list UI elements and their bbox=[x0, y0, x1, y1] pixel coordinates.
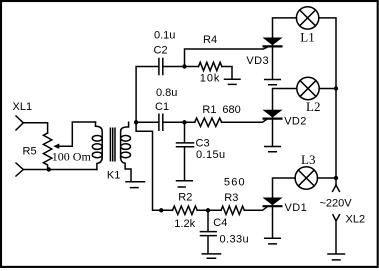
svg-text:C1: C1 bbox=[155, 101, 169, 113]
wire junction down to R2 row bbox=[136, 122, 172, 210]
node R5 bottom junction bbox=[47, 167, 51, 171]
svg-text:0.8u: 0.8u bbox=[156, 87, 177, 99]
svg-text:L1: L1 bbox=[300, 29, 314, 44]
wire XL1 pin2 to transformer primary bottom bbox=[23, 169, 97, 171]
capacitor C4 bbox=[201, 210, 217, 253]
wire R2 to R3 bbox=[197, 209, 221, 211]
connector XL2 pin bbox=[333, 215, 340, 253]
svg-text:C2: C2 bbox=[154, 45, 168, 57]
node L3 rail junction bbox=[334, 176, 338, 180]
svg-text:VD2: VD2 bbox=[284, 115, 307, 127]
capacitor C3 bbox=[177, 122, 194, 180]
svg-text:XL2: XL2 bbox=[346, 214, 366, 226]
ground under transformer secondary bbox=[126, 182, 145, 188]
svg-text:C3: C3 bbox=[196, 138, 210, 150]
lamp L3 bbox=[295, 167, 317, 189]
svg-text:0.1u: 0.1u bbox=[154, 29, 175, 41]
wire VD2 cathode to ground bbox=[272, 120, 274, 146]
resistor R4 bbox=[185, 62, 233, 78]
node A junction C2/R4/gate bbox=[182, 64, 186, 68]
wire VD1 anode to L3 bbox=[273, 178, 296, 198]
wire L2 to rail bbox=[319, 88, 336, 90]
svg-text:R3: R3 bbox=[224, 192, 238, 204]
wire secondary junction up to C2 bbox=[136, 67, 158, 123]
svg-text:680: 680 bbox=[222, 104, 240, 116]
ground under C3 bbox=[177, 181, 193, 187]
connector pin ~220V bbox=[333, 185, 340, 191]
wire R1 to VD2 gate bbox=[222, 119, 267, 122]
capacitor C2 bbox=[159, 59, 185, 75]
transformer K1 core bbox=[110, 128, 115, 160]
svg-text:L3: L3 bbox=[301, 152, 315, 167]
ground at XL2 bbox=[328, 254, 345, 260]
ground under C4 bbox=[202, 254, 220, 258]
svg-text:R2: R2 bbox=[178, 192, 192, 204]
node C4 tap bbox=[206, 208, 210, 212]
svg-text:XL1: XL1 bbox=[13, 101, 33, 113]
svg-text:VD1: VD1 bbox=[285, 202, 308, 214]
svg-text:VD3: VD3 bbox=[246, 55, 269, 67]
wire VD2 anode to L2 bbox=[273, 89, 297, 111]
svg-text:0.33u: 0.33u bbox=[220, 233, 250, 245]
wire L3 to rail bbox=[317, 177, 336, 179]
resistor R3 bbox=[221, 206, 244, 214]
node transformer secondary top junction bbox=[134, 120, 138, 124]
svg-text:C4: C4 bbox=[213, 217, 227, 229]
svg-text:K1: K1 bbox=[107, 169, 120, 181]
wire R3 to VD1 gate bbox=[244, 207, 267, 210]
wire XL1 pin1 to R5 top bbox=[23, 123, 47, 133]
node L2 rail junction bbox=[334, 86, 338, 90]
connector XL1 pin 2 bbox=[16, 163, 23, 176]
capacitor C1 bbox=[159, 114, 195, 130]
wire VD3 cathode to ground bbox=[272, 48, 274, 79]
wire L1 to right rail bbox=[319, 18, 336, 185]
svg-text:560: 560 bbox=[224, 176, 246, 188]
wire VD3 anode to L1 bbox=[273, 18, 297, 38]
svg-text:R5: R5 bbox=[23, 146, 37, 158]
connector XL1 pin 1 bbox=[16, 116, 23, 130]
svg-text:R1: R1 bbox=[202, 104, 216, 116]
node R2 left bbox=[159, 208, 163, 212]
svg-text:0.15u: 0.15u bbox=[196, 149, 226, 161]
svg-text:L2: L2 bbox=[306, 99, 320, 114]
transformer K1 secondary winding bbox=[121, 122, 131, 181]
node C1/R1/C3 junction bbox=[182, 120, 186, 124]
ground under VD1 bbox=[265, 238, 281, 244]
transformer K1 primary winding bbox=[92, 122, 102, 170]
thyristor VD1 bbox=[264, 198, 282, 206]
ground at R4 bbox=[225, 79, 241, 84]
svg-text:~220V: ~220V bbox=[320, 198, 353, 210]
potentiometer R5 wiper arrow bbox=[53, 122, 95, 149]
ground under VD3 bbox=[265, 80, 281, 85]
svg-text:10k: 10k bbox=[200, 73, 220, 85]
resistor R5 (potentiometer) bbox=[43, 133, 51, 170]
ground under VD2 bbox=[265, 147, 281, 152]
svg-text:R4: R4 bbox=[203, 34, 217, 46]
thyristor VD2 bbox=[264, 110, 282, 118]
lamp L2 bbox=[297, 77, 319, 99]
wire VD1 cathode to ground bbox=[272, 207, 274, 237]
thyristor VD3 bbox=[264, 38, 282, 46]
lamp L1 bbox=[296, 7, 318, 29]
resistor R2 bbox=[173, 206, 198, 214]
wire node A to VD3 gate bbox=[185, 47, 268, 66]
wire secondary junction to C1 bbox=[136, 121, 158, 123]
svg-text:1.2k: 1.2k bbox=[174, 218, 195, 230]
svg-text:100 Om: 100 Om bbox=[52, 150, 92, 164]
resistor R1 bbox=[195, 118, 222, 126]
